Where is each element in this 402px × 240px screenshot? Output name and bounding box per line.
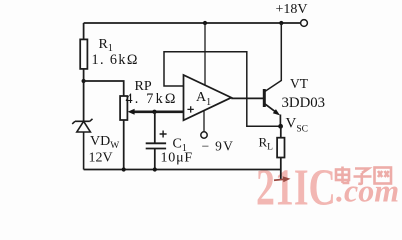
- node Vsc: [278, 124, 283, 129]
- wire C1 bottom lead: [154, 149, 156, 170]
- wire op-amp output to base: [231, 97, 263, 99]
- svg-text:VT: VT: [290, 76, 309, 91]
- svg-text:3DD03: 3DD03: [282, 95, 326, 111]
- op-amp + input mark: [187, 106, 193, 112]
- svg-text:12V: 12V: [89, 151, 113, 166]
- C1 polarity +: [160, 131, 167, 138]
- transistor VT base bar: [263, 89, 266, 107]
- zener diode VDW: [72, 119, 92, 170]
- node top rail / collector: [279, 21, 283, 25]
- output arrow (red): [274, 176, 291, 182]
- node C1 / bottom rail: [153, 167, 157, 171]
- watermark 21IC: [256, 159, 336, 216]
- svg-text:+18V: +18V: [276, 2, 308, 17]
- node R1 / RP branch: [82, 79, 86, 83]
- resistor R1: [80, 39, 87, 69]
- node wiper / C1: [152, 110, 156, 114]
- wire emitter to Vsc node: [279, 115, 281, 127]
- potentiometer RP: [120, 96, 127, 120]
- wire R1 top lead: [83, 23, 85, 39]
- svg-text:10μF: 10μF: [161, 151, 194, 166]
- node top rail / op-amp supply: [203, 21, 207, 25]
- node RP / bottom rail: [122, 167, 126, 171]
- terminal -9V: [201, 132, 207, 138]
- resistor RL: [277, 138, 284, 158]
- svg-text:− 9V: − 9V: [202, 139, 235, 154]
- wire C1 top lead: [154, 112, 156, 144]
- wire op-amp positive supply: [204, 23, 206, 85]
- op-amp A1: [184, 75, 232, 120]
- wire RP wiper to op-amp + input: [134, 111, 184, 114]
- wire op-amp negative supply: [203, 110, 205, 131]
- svg-text:.com: .com: [336, 173, 399, 209]
- wire top +18V rail: [84, 22, 301, 24]
- transistor VT collector: [265, 23, 282, 92]
- RP wiper arrow: [128, 109, 135, 115]
- wire RL bottom lead: [280, 158, 282, 181]
- svg-text:4. 7kΩ: 4. 7kΩ: [126, 91, 178, 107]
- wire R1 bottom lead: [83, 69, 85, 121]
- svg-text:1. 6kΩ: 1. 6kΩ: [92, 52, 139, 68]
- wire RP bottom lead: [123, 120, 125, 170]
- wire Vsc node to RL: [280, 126, 282, 137]
- terminal +18V: [301, 20, 308, 27]
- capacitor C1: [146, 143, 166, 148]
- wire bottom rail: [84, 169, 281, 171]
- watermark 电子网: [336, 167, 391, 184]
- svg-text:21IC: 21IC: [256, 159, 336, 214]
- wire R1 junction to RP top: [84, 81, 124, 96]
- transistor VT emitter: [265, 104, 277, 113]
- wire feedback: inverting input to Vsc node: [164, 52, 280, 127]
- emitter arrow: [273, 109, 280, 115]
